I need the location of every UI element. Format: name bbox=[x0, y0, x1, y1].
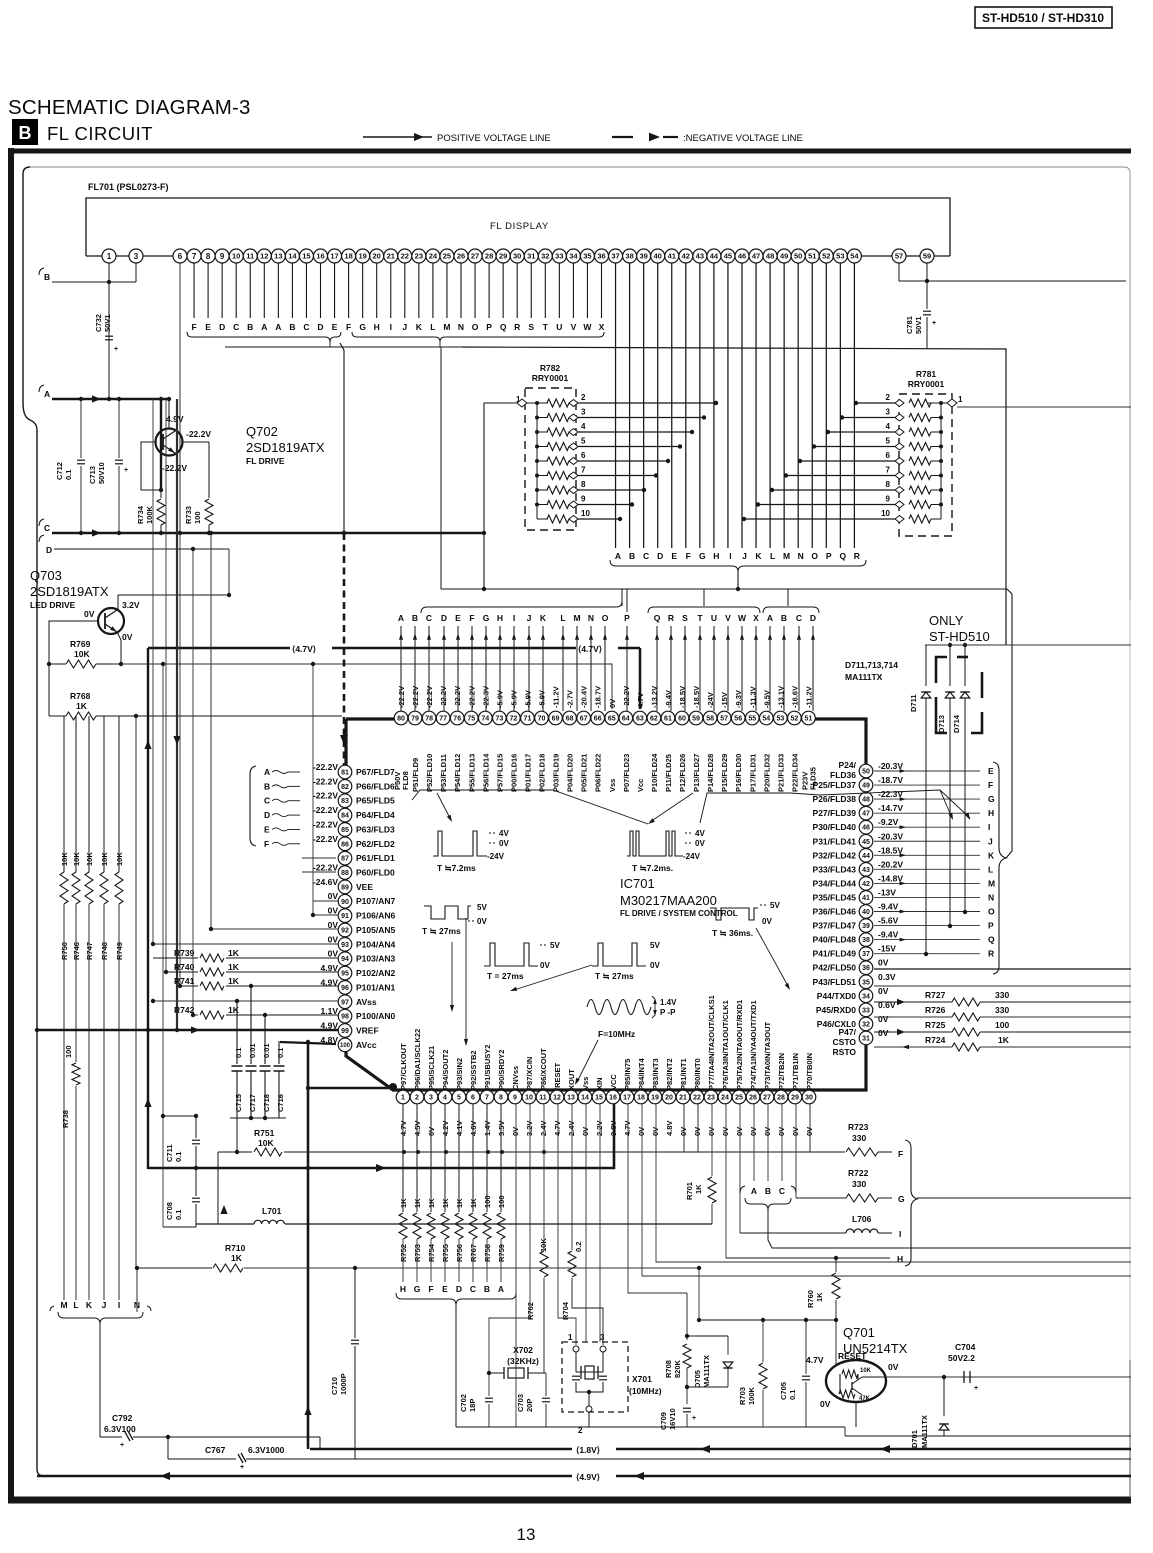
svg-text:N: N bbox=[988, 892, 994, 902]
svg-text:26: 26 bbox=[457, 252, 465, 261]
svg-text:C732: C732 bbox=[94, 314, 103, 332]
wire FL pin6 column bbox=[179, 263, 181, 533]
svg-text:83: 83 bbox=[341, 798, 349, 805]
svg-text:56: 56 bbox=[734, 716, 742, 723]
svg-text:1K: 1K bbox=[694, 1184, 703, 1194]
svg-text:FL CIRCUIT: FL CIRCUIT bbox=[47, 123, 153, 144]
svg-text:C718: C718 bbox=[262, 1094, 271, 1112]
svg-text:P67/FLD7: P67/FLD7 bbox=[356, 767, 395, 777]
svg-text:-22.2V: -22.2V bbox=[313, 819, 338, 829]
svg-text:-22.3V: -22.3V bbox=[481, 686, 490, 708]
wire R781 row 9 bbox=[758, 504, 895, 506]
svg-text:49: 49 bbox=[780, 252, 788, 261]
IC701 left pins 81-100 bbox=[338, 765, 352, 779]
svg-text:E: E bbox=[205, 322, 211, 332]
svg-text:R758: R758 bbox=[483, 1244, 492, 1262]
svg-text:/RESET: /RESET bbox=[553, 1062, 562, 1090]
wire Q702 collector bbox=[168, 399, 170, 429]
svg-text:+: + bbox=[240, 1464, 244, 1471]
svg-text:P65/FLD5: P65/FLD5 bbox=[356, 796, 395, 806]
svg-text:-5.9V: -5.9V bbox=[523, 690, 532, 708]
svg-text:C703: C703 bbox=[516, 1394, 525, 1412]
svg-text:5V: 5V bbox=[770, 901, 780, 910]
svg-text:2: 2 bbox=[581, 393, 586, 402]
svg-text:59: 59 bbox=[692, 716, 700, 723]
svg-text:T: T bbox=[697, 613, 703, 623]
svg-text:C: C bbox=[303, 322, 309, 332]
svg-text:6: 6 bbox=[471, 1095, 475, 1102]
svg-text:0V: 0V bbox=[477, 917, 487, 926]
svg-text:80: 80 bbox=[397, 716, 405, 723]
svg-text:Q: Q bbox=[654, 613, 661, 623]
wire R782 row 9 bbox=[578, 504, 632, 506]
svg-text:46: 46 bbox=[738, 252, 746, 261]
svg-text:P84/INT4: P84/INT4 bbox=[637, 1057, 646, 1090]
svg-text:0.1: 0.1 bbox=[174, 1210, 183, 1220]
svg-text:26: 26 bbox=[749, 1095, 757, 1102]
svg-text:LED DRIVE: LED DRIVE bbox=[30, 600, 76, 610]
svg-text:A: A bbox=[44, 389, 50, 399]
svg-text:-5.9V: -5.9V bbox=[509, 690, 518, 708]
svg-text:P73/TA0IN/TA3OUT: P73/TA0IN/TA3OUT bbox=[763, 1022, 772, 1090]
svg-text:+: + bbox=[932, 320, 936, 327]
svg-text:G: G bbox=[359, 322, 366, 332]
svg-text:10: 10 bbox=[881, 509, 890, 518]
svg-text:(10MHz): (10MHz) bbox=[629, 1386, 662, 1396]
svg-text:2: 2 bbox=[886, 393, 891, 402]
svg-text:F: F bbox=[346, 322, 351, 332]
svg-text:330: 330 bbox=[995, 1005, 1009, 1015]
svg-text:P91/SBUSY2: P91/SBUSY2 bbox=[483, 1045, 492, 1090]
svg-text:38: 38 bbox=[625, 252, 633, 261]
svg-text:77: 77 bbox=[439, 716, 447, 723]
svg-text:R781: R781 bbox=[916, 369, 937, 379]
svg-text:V: V bbox=[725, 613, 731, 623]
svg-text:40: 40 bbox=[654, 252, 662, 261]
svg-text:0V: 0V bbox=[878, 1028, 889, 1038]
svg-text:P42/FLD50: P42/FLD50 bbox=[813, 963, 857, 973]
svg-text:42: 42 bbox=[862, 881, 870, 888]
svg-text:-22.2V: -22.2V bbox=[411, 686, 420, 708]
bracket over letters Q-X bbox=[648, 607, 760, 613]
resistor R781 element 2 bbox=[939, 401, 943, 405]
svg-text:X: X bbox=[599, 322, 605, 332]
svg-text:MA111TX: MA111TX bbox=[845, 672, 883, 682]
svg-text:R702: R702 bbox=[526, 1302, 535, 1320]
svg-text:0.1: 0.1 bbox=[234, 1048, 243, 1058]
svg-text:0V: 0V bbox=[721, 1127, 730, 1136]
svg-text:R756: R756 bbox=[455, 1244, 464, 1262]
node B bbox=[39, 268, 44, 275]
svg-text:P72/TB2IN: P72/TB2IN bbox=[777, 1053, 786, 1090]
wire rows to pins 87-89 bbox=[302, 857, 336, 859]
svg-text:41: 41 bbox=[668, 252, 676, 261]
svg-text:L: L bbox=[770, 551, 775, 561]
svg-text:67: 67 bbox=[580, 716, 588, 723]
svg-text:-22.2V: -22.2V bbox=[439, 686, 448, 708]
svg-text:-15V: -15V bbox=[878, 944, 896, 954]
waveform 27ms inverted bbox=[424, 906, 471, 919]
wire R781 row 2 bbox=[856, 402, 895, 404]
wire AVss row bbox=[151, 1000, 338, 1002]
power rail 1.8V bbox=[310, 1448, 1131, 1450]
svg-text:P103/AN3: P103/AN3 bbox=[356, 954, 395, 964]
svg-text:6: 6 bbox=[178, 252, 183, 261]
svg-text:0V: 0V bbox=[499, 839, 509, 848]
svg-text:75: 75 bbox=[467, 716, 475, 723]
svg-text:1: 1 bbox=[958, 395, 963, 404]
waveform pointer arrows bbox=[437, 793, 451, 820]
svg-text:R: R bbox=[854, 551, 860, 561]
svg-text:C: C bbox=[796, 613, 802, 623]
svg-text:10: 10 bbox=[581, 509, 590, 518]
wire pin36 0V row bbox=[874, 968, 1131, 970]
svg-text:-22.2V: -22.2V bbox=[467, 686, 476, 708]
svg-text:P61/FLD1: P61/FLD1 bbox=[356, 853, 395, 863]
svg-text:A: A bbox=[398, 613, 404, 623]
svg-text:C: C bbox=[470, 1284, 476, 1294]
svg-text:52: 52 bbox=[822, 252, 830, 261]
svg-text:22: 22 bbox=[401, 252, 409, 261]
svg-text:31: 31 bbox=[862, 1035, 870, 1042]
svg-text:R760: R760 bbox=[806, 1290, 815, 1308]
svg-text:9: 9 bbox=[581, 495, 586, 504]
svg-text:4.8V: 4.8V bbox=[665, 1121, 674, 1136]
svg-text:34: 34 bbox=[862, 993, 870, 1000]
wire VEE row from dashed bus bbox=[343, 886, 345, 888]
svg-text:J: J bbox=[742, 551, 747, 561]
svg-text:P24/: P24/ bbox=[839, 760, 857, 770]
svg-text:P: P bbox=[988, 921, 994, 931]
svg-text:54: 54 bbox=[850, 252, 859, 261]
svg-text:65: 65 bbox=[608, 716, 616, 723]
svg-text:P03/FLD19: P03/FLD19 bbox=[552, 754, 561, 792]
svg-text:Vcc: Vcc bbox=[636, 779, 645, 792]
svg-text:R703: R703 bbox=[738, 1387, 747, 1405]
svg-text:R: R bbox=[668, 613, 674, 623]
wire AVcc feed bbox=[280, 1042, 336, 1044]
svg-text:89: 89 bbox=[341, 884, 349, 891]
svg-text:X701: X701 bbox=[632, 1374, 652, 1384]
svg-text:R741: R741 bbox=[174, 976, 195, 986]
svg-text:33: 33 bbox=[862, 1007, 870, 1014]
svg-text:-15V: -15V bbox=[720, 692, 729, 708]
svg-text:F: F bbox=[264, 839, 269, 849]
svg-text:0V: 0V bbox=[695, 839, 705, 848]
svg-text:3.2V: 3.2V bbox=[525, 1121, 534, 1136]
svg-text:-13V: -13V bbox=[878, 887, 896, 897]
bracket under FL letters A-X bbox=[352, 332, 604, 342]
svg-text:15: 15 bbox=[302, 252, 310, 261]
bracket under A-R letters bbox=[610, 560, 866, 572]
svg-text:⟨4.7V⟩: ⟨4.7V⟩ bbox=[578, 644, 602, 654]
svg-text:-13.1V: -13.1V bbox=[776, 686, 785, 708]
bracket under H-A letters bbox=[396, 1293, 516, 1305]
svg-text:3.2V: 3.2V bbox=[122, 600, 140, 610]
IC701 top pins 80-51 bbox=[802, 711, 816, 725]
svg-text:11: 11 bbox=[246, 252, 254, 261]
svg-text:P70/TB0IN: P70/TB0IN bbox=[805, 1053, 814, 1090]
svg-text:K: K bbox=[416, 322, 423, 332]
svg-text:R734: R734 bbox=[136, 505, 145, 524]
svg-text:P45/RXD0: P45/RXD0 bbox=[816, 1005, 856, 1015]
resistor R781 element 8 bbox=[940, 476, 942, 491]
resistor R781 element 6 bbox=[940, 447, 942, 462]
svg-text:IC701: IC701 bbox=[620, 876, 655, 891]
FL display pins bbox=[102, 249, 116, 263]
svg-text:A: A bbox=[264, 767, 270, 777]
svg-text:I: I bbox=[988, 822, 990, 832]
svg-text:0.1: 0.1 bbox=[174, 1152, 183, 1162]
svg-text:A: A bbox=[615, 551, 621, 561]
svg-text:F=10MHz: F=10MHz bbox=[598, 1029, 635, 1039]
waveform select polyline bbox=[412, 790, 648, 824]
resistor R782 element 10 bbox=[536, 505, 538, 520]
svg-text:17: 17 bbox=[330, 252, 338, 261]
svg-text:0V: 0V bbox=[791, 1127, 800, 1136]
svg-text:6.3V1000: 6.3V1000 bbox=[248, 1445, 285, 1455]
svg-text:87: 87 bbox=[341, 856, 349, 863]
svg-text:Q: Q bbox=[988, 935, 995, 945]
svg-text:62: 62 bbox=[650, 716, 658, 723]
svg-text:5V: 5V bbox=[550, 941, 560, 950]
svg-text:-20.3V: -20.3V bbox=[878, 761, 903, 771]
svg-text:-9.3V: -9.3V bbox=[734, 690, 743, 708]
svg-text:F: F bbox=[898, 1149, 903, 1159]
svg-text:23: 23 bbox=[707, 1095, 715, 1102]
svg-text:-14.7V: -14.7V bbox=[878, 803, 903, 813]
svg-text:64: 64 bbox=[622, 716, 630, 723]
wire R781 row 4 bbox=[828, 431, 895, 433]
svg-text:60: 60 bbox=[678, 716, 686, 723]
svg-text:50V1: 50V1 bbox=[103, 314, 112, 332]
svg-text:P94/SOUT2: P94/SOUT2 bbox=[441, 1050, 450, 1090]
svg-text:P52/FLD10: P52/FLD10 bbox=[425, 754, 434, 792]
svg-text:330: 330 bbox=[995, 990, 1009, 1000]
svg-text:100K: 100K bbox=[747, 1386, 756, 1405]
svg-text:1K: 1K bbox=[231, 1253, 243, 1263]
svg-text:M: M bbox=[783, 551, 790, 561]
svg-text:P104/AN4: P104/AN4 bbox=[356, 939, 395, 949]
svg-text:R701: R701 bbox=[685, 1182, 694, 1200]
svg-text:T: T bbox=[543, 322, 549, 332]
svg-text:AVss: AVss bbox=[356, 997, 377, 1007]
svg-text:F: F bbox=[469, 613, 474, 623]
svg-text:ST-HD510 / ST-HD310: ST-HD510 / ST-HD310 bbox=[982, 11, 1104, 25]
svg-text:X: X bbox=[753, 613, 759, 623]
IC701 right pins 50-31 bbox=[859, 1031, 873, 1045]
svg-text:-5.9V: -5.9V bbox=[495, 690, 504, 708]
svg-text:-9.4V: -9.4V bbox=[878, 930, 899, 940]
svg-text:RRY0001: RRY0001 bbox=[532, 373, 569, 383]
waveform FLD pulse left bbox=[433, 831, 487, 856]
svg-text:22: 22 bbox=[693, 1095, 701, 1102]
resistor R781 element 3 bbox=[940, 403, 942, 418]
svg-text:0V: 0V bbox=[328, 934, 339, 944]
svg-text:27: 27 bbox=[763, 1095, 771, 1102]
svg-text:K: K bbox=[540, 613, 547, 623]
svg-text:8: 8 bbox=[499, 1095, 503, 1102]
svg-text:R724: R724 bbox=[925, 1035, 946, 1045]
svg-text:D705: D705 bbox=[693, 1370, 702, 1388]
svg-text:D711: D711 bbox=[909, 694, 918, 712]
svg-text:16: 16 bbox=[316, 252, 324, 261]
svg-text:46: 46 bbox=[862, 825, 870, 832]
svg-text:61: 61 bbox=[664, 716, 672, 723]
svg-text:T = 27ms: T = 27ms bbox=[487, 971, 524, 981]
svg-text:D: D bbox=[657, 551, 663, 561]
svg-text:-22.2V: -22.2V bbox=[186, 429, 211, 439]
svg-text:XOUT: XOUT bbox=[567, 1069, 576, 1090]
svg-text:S: S bbox=[528, 322, 534, 332]
svg-text:1: 1 bbox=[107, 252, 112, 261]
svg-text:+: + bbox=[692, 1415, 696, 1422]
svg-text:P74/TA1IN/YA4OUT/TXD1: P74/TA1IN/YA4OUT/TXD1 bbox=[749, 1000, 758, 1090]
svg-text:4.7V: 4.7V bbox=[623, 1121, 632, 1136]
svg-text:40: 40 bbox=[862, 909, 870, 916]
svg-text:P93/SIN2: P93/SIN2 bbox=[455, 1058, 464, 1090]
svg-text:13: 13 bbox=[567, 1095, 575, 1102]
svg-text:30: 30 bbox=[805, 1095, 813, 1102]
wire A row vertical to R734 bbox=[160, 399, 162, 490]
svg-text:Q702: Q702 bbox=[246, 424, 278, 439]
wire 0V branch column x163 bbox=[162, 664, 164, 1227]
svg-text:10K: 10K bbox=[539, 1238, 548, 1252]
wire negative bus vertical bbox=[176, 399, 178, 1030]
svg-text:D701: D701 bbox=[910, 1430, 919, 1448]
svg-text:P100/AN0: P100/AN0 bbox=[356, 1011, 395, 1021]
svg-text:L: L bbox=[430, 322, 435, 332]
svg-text:-16.6V: -16.6V bbox=[790, 686, 799, 708]
svg-text:84: 84 bbox=[341, 813, 349, 820]
svg-text:0V: 0V bbox=[888, 1362, 899, 1372]
wire R781 row 3 bbox=[842, 417, 895, 419]
svg-text:+: + bbox=[120, 1442, 124, 1449]
svg-text:⟨4.9V⟩: ⟨4.9V⟩ bbox=[576, 1472, 600, 1482]
pulse select arrow right bbox=[940, 790, 952, 818]
svg-text:M: M bbox=[443, 322, 450, 332]
svg-text:3: 3 bbox=[429, 1095, 433, 1102]
svg-text:R753: R753 bbox=[413, 1244, 422, 1262]
svg-text:12: 12 bbox=[260, 252, 268, 261]
svg-text:E: E bbox=[671, 551, 677, 561]
svg-text:M30217MAA200: M30217MAA200 bbox=[620, 893, 717, 908]
svg-text:FL DISPLAY: FL DISPLAY bbox=[490, 221, 549, 232]
svg-text:2SD1819ATX: 2SD1819ATX bbox=[30, 584, 109, 599]
svg-text:C: C bbox=[44, 523, 50, 533]
wire column x153 bbox=[152, 399, 154, 944]
svg-text:E: E bbox=[264, 824, 270, 834]
power rail 4.9V bbox=[37, 1475, 1131, 1477]
svg-text:57: 57 bbox=[895, 252, 903, 261]
svg-text:T ≒7.2ms.: T ≒7.2ms. bbox=[632, 863, 673, 873]
svg-text:11: 11 bbox=[539, 1095, 547, 1102]
svg-text:0V: 0V bbox=[693, 1127, 702, 1136]
svg-text:69: 69 bbox=[552, 716, 560, 723]
svg-text:B: B bbox=[629, 551, 635, 561]
svg-text:0V: 0V bbox=[763, 1127, 772, 1136]
svg-text:N: N bbox=[588, 613, 594, 623]
svg-text:39: 39 bbox=[639, 252, 647, 261]
svg-text:98: 98 bbox=[341, 1014, 349, 1021]
bracket under M-N letters bbox=[50, 1306, 151, 1311]
svg-text:0V: 0V bbox=[878, 1014, 889, 1024]
legend positive voltage line bbox=[363, 136, 432, 138]
svg-text:50V10: 50V10 bbox=[97, 462, 106, 484]
svg-text:P33/FLD43: P33/FLD43 bbox=[813, 864, 857, 874]
svg-text:0V: 0V bbox=[328, 920, 339, 930]
wire R782 row 5 bbox=[578, 446, 680, 448]
svg-text:32: 32 bbox=[541, 252, 549, 261]
svg-text:P37/FLD47: P37/FLD47 bbox=[813, 921, 857, 931]
svg-text:C: C bbox=[264, 796, 270, 806]
svg-text:0.01: 0.01 bbox=[248, 1043, 257, 1058]
svg-text:92: 92 bbox=[341, 927, 349, 934]
svg-text:G: G bbox=[414, 1284, 421, 1294]
svg-text:10: 10 bbox=[232, 252, 240, 261]
wire R782 row 2 bbox=[578, 402, 716, 404]
svg-text:330: 330 bbox=[852, 1179, 866, 1189]
svg-text:0V: 0V bbox=[328, 949, 339, 959]
svg-text:T ≒ 36ms.: T ≒ 36ms. bbox=[712, 928, 753, 938]
wire R782 row 7 bbox=[578, 475, 656, 477]
svg-text:55: 55 bbox=[748, 716, 756, 723]
wire Q702 base network bbox=[141, 442, 161, 490]
svg-text:O: O bbox=[602, 613, 609, 623]
wire base rail bbox=[699, 1319, 836, 1321]
wire R781 row 6 bbox=[800, 460, 895, 462]
svg-text:-18.5V: -18.5V bbox=[678, 686, 687, 708]
svg-text:D714: D714 bbox=[952, 714, 961, 733]
svg-text:73: 73 bbox=[495, 716, 503, 723]
svg-text:-9.4V: -9.4V bbox=[878, 902, 899, 912]
svg-text:0V: 0V bbox=[84, 609, 95, 619]
wire rows 50-37 to letters E-R bbox=[874, 770, 980, 772]
svg-text:A: A bbox=[767, 613, 773, 623]
wire R768 to R710 column bbox=[135, 716, 137, 1268]
IC701 M30217MAA200 FL DRIVE / SYSTEM CONTROL bbox=[346, 719, 866, 1090]
svg-text:0.1: 0.1 bbox=[276, 1048, 285, 1058]
svg-text:1K: 1K bbox=[228, 1005, 240, 1015]
svg-text:R710: R710 bbox=[225, 1243, 246, 1253]
svg-text:VCC: VCC bbox=[609, 1074, 618, 1090]
outer border left bbox=[8, 148, 14, 1503]
svg-text:10K: 10K bbox=[258, 1138, 274, 1148]
svg-text:82: 82 bbox=[341, 784, 349, 791]
svg-text:AVcc: AVcc bbox=[356, 1040, 377, 1050]
svg-text:I: I bbox=[729, 551, 731, 561]
wire pin12 to X701 pin1 bbox=[558, 1104, 576, 1345]
svg-text:C704: C704 bbox=[955, 1342, 976, 1352]
svg-text:E: E bbox=[442, 1284, 448, 1294]
svg-text:B: B bbox=[264, 781, 270, 791]
svg-text:A: A bbox=[498, 1284, 504, 1294]
svg-text:D: D bbox=[456, 1284, 462, 1294]
svg-text:-9.4V: -9.4V bbox=[664, 690, 673, 708]
svg-text:D711,713,714: D711,713,714 bbox=[845, 660, 898, 670]
wire bus y589 bbox=[441, 588, 1007, 590]
svg-text:85: 85 bbox=[341, 827, 349, 834]
svg-text:1K: 1K bbox=[228, 962, 240, 972]
svg-text:D: D bbox=[441, 613, 447, 623]
svg-text:N: N bbox=[798, 551, 804, 561]
svg-text:0V: 0V bbox=[878, 958, 889, 968]
svg-text:P55/FLD13: P55/FLD13 bbox=[467, 754, 476, 792]
svg-text:FL701 (PSL0273-F): FL701 (PSL0273-F) bbox=[88, 182, 169, 192]
svg-text:93: 93 bbox=[341, 942, 349, 949]
wire FL pin57 row bbox=[899, 263, 1126, 281]
inner border line bbox=[30, 167, 1130, 600]
